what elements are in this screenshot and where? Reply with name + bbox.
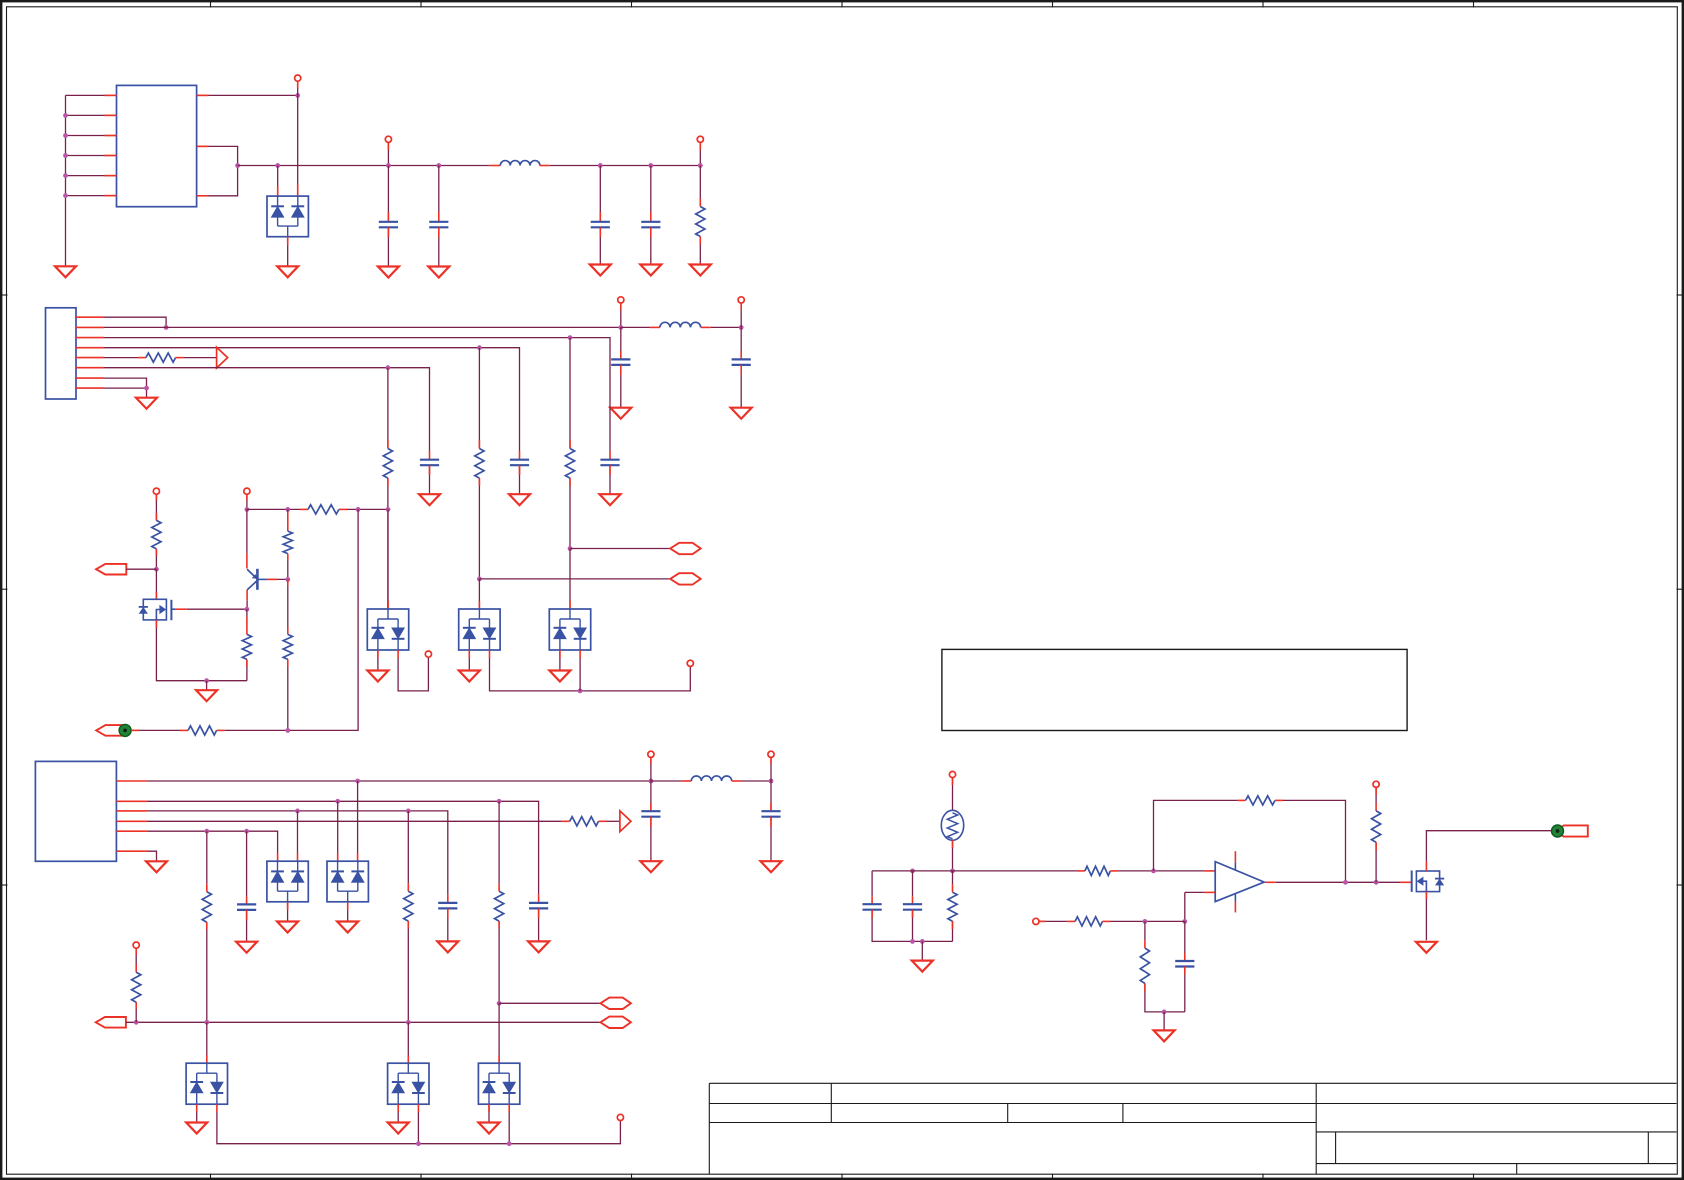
row4 wire to R [104,357,146,359]
ground D6 [277,922,298,933]
junction R10 hex [497,1001,502,1006]
junction rail cap x650.8 [648,163,653,168]
ground cap x388.4 [378,267,399,278]
wire gnd stub analog [921,941,923,960]
wire D10 right out [508,1104,510,1144]
left pin bus wire [65,95,67,266]
wire cap row5 gnd [429,465,431,494]
wire to B1 top [387,509,389,609]
wire T2 down [246,494,248,509]
ground D9 [388,1123,409,1134]
J2 pin 8 wire [104,387,147,389]
note box [942,649,1407,730]
ground row2J3 [528,941,549,952]
resistor R13 [948,892,957,921]
ground row3J3 [437,941,458,952]
capacitor row1 x741.2 [732,359,751,365]
inductor L2 [660,322,701,327]
junction P3 term [134,1020,139,1025]
junction rail left [235,163,240,168]
wire C12 bottom [1184,967,1186,1012]
junction rail resistor [698,163,703,168]
junction plus node [1182,919,1187,924]
wire gnd stub [206,681,208,691]
wire cap to ground x650.8 [650,227,652,264]
wire row5 to R8 [206,831,208,892]
port offpage d [600,1017,631,1028]
ground cap x438.8 [428,267,449,278]
dual diode D6 [267,861,308,902]
resistor R16 [1140,948,1149,983]
junction P3 C1 [204,1020,209,1025]
wire D6 gnd [287,902,289,921]
wire cap to ground x600.3 [599,227,601,264]
wire C11 bottom [912,910,914,942]
terminal D3 out [687,660,693,666]
wire node to R4 [246,609,248,634]
row4J3 wire to port [599,820,620,822]
junction row5 cap [244,829,249,834]
wire D2 left gnd [377,650,379,671]
wire row2 to R down [569,338,571,449]
wire row3 to R down [478,348,480,449]
ground analog in [912,961,933,972]
ground D2 [367,671,388,682]
resistor R9 [404,891,413,921]
J2 pin 7 stub [76,377,104,379]
terminal above rail x700.3 [697,136,703,142]
wire cap to ground x438.8 [438,227,440,266]
J3 row2 wire [147,801,539,903]
resistor row4J3 [570,817,599,826]
wire lower gnd stub [1163,1012,1165,1031]
wire cap to ground x388.4 [387,227,389,266]
dual diode D10 [478,1063,519,1104]
wire P3 row [126,1021,600,1023]
terminal T1 [153,488,159,494]
port out row4J3 [620,811,631,832]
ground row1J3 x650.9 [640,861,661,872]
terminal row1 b [738,297,744,303]
wire opamp plus [1185,891,1215,893]
junction row2 [568,335,573,340]
junction row1 b [739,325,744,330]
power rail wire right [540,165,700,167]
wire R13 top [952,871,954,892]
junction rail cap x438.8 [436,163,441,168]
connector J3 [35,761,116,861]
junction bus pin 6 [63,193,68,198]
junction gnd rail [204,678,209,683]
capacitor row3 [510,460,529,466]
ground D8 [186,1123,207,1134]
wire rail to cap C x388.4 [387,166,389,222]
junction sensor node [950,869,955,874]
junction port row a [568,546,573,551]
junction T2 row [245,507,250,512]
dual diode D8 [186,1063,227,1104]
resistor row4 [146,353,176,362]
J3 pin 6 stub [116,850,146,852]
junction R16 top [1143,919,1148,924]
wire row3 to D6 right [297,811,299,861]
port offpage a [670,543,701,554]
row3 wire [104,348,520,460]
wire D3 left gnd [468,650,470,671]
ground J3 pin6 [146,861,167,872]
U1 left pin 4 wire [66,155,117,157]
wire row1 cap x650.9 [650,781,652,811]
wire term to R11 [135,948,137,972]
terminal row1 a stub [620,303,622,327]
terminal sensor [949,771,955,777]
ground cap row5 [419,494,440,505]
title block [709,1083,1676,1174]
terminal ref [1033,918,1039,924]
capacitor row3J3 [438,903,457,909]
wire term to RT1 [952,778,954,811]
U1 left pin 1 wire [66,94,117,96]
port in P3 [96,1017,126,1028]
capacitor C x388.4 [379,222,398,228]
resistor R4 [242,634,251,659]
ground Q3 [1416,942,1437,953]
wire terminal stub x700.3 [699,142,701,165]
capacitor row1J3 x650.9 [641,811,660,817]
MOSFET Q1 [139,599,176,620]
wire R16 bottom [1145,983,1185,1012]
wire P2 to R7 [131,729,188,731]
ground lower [1154,1030,1175,1041]
wire rail to cap C x438.8 [438,166,440,222]
J3 pin 4 stub [116,820,146,822]
wire base node to R6 [287,579,289,634]
wire to hex port b [479,578,670,580]
wire row1 cap x771 [770,781,772,811]
wire Q2 base [267,578,288,580]
terminal D-row out [617,1114,623,1120]
analog main wire b [1110,870,1215,872]
port offpage c [600,998,631,1009]
wire D10 left gnd [488,1104,490,1122]
wire row2 to R10 [498,801,500,891]
U1 right pins 2-3 loop wire [197,146,238,195]
J2 pin 6 stub [76,367,104,369]
wire to A1 top [478,579,480,609]
wire pullup to R17 [1375,787,1377,811]
terminal row wire b [339,508,388,510]
dual diode D7 [327,861,368,902]
junction P3 C2 [406,1020,411,1025]
dual diode D9 [388,1063,429,1104]
dual diode D1 [267,196,308,237]
junction D9 rail [416,1141,421,1146]
capacitor row2 [600,460,619,466]
wire D2 right out [398,650,428,691]
wire R17 down [1375,842,1377,882]
resistor R12 [1085,866,1111,875]
wire hex row c [499,1002,600,1004]
ground bus [55,266,76,277]
U1 left pin 2 wire [66,114,117,116]
wire R16 top [1144,921,1146,948]
capacitor C11 [903,904,922,910]
transistor Q2 [247,569,267,590]
inductor L3 [691,776,731,781]
terminal above rail x388.4 [385,136,391,142]
wire D1 to ground [287,237,289,267]
row1 wire to L2 [621,326,660,328]
terminal pullup [1373,781,1379,787]
junction feedback [1151,869,1156,874]
terminal VCC1 [295,75,301,81]
wire C12 top [1184,921,1186,961]
wire R10 down [498,921,500,1003]
junction bottom rail b [920,939,925,944]
junction lower gnd [1162,1010,1167,1015]
wire to hex port a [570,548,670,550]
resistor R3 [308,505,339,514]
J2 pins 7-8 wire [104,378,147,388]
J3 pin 5 stub [116,830,146,832]
junction pins 7-8 [144,386,149,391]
wire R7 to corner [217,509,359,730]
ground D3 [459,671,480,682]
resistor R14 [1246,796,1275,805]
U1 left pin 3 wire [66,135,117,137]
wire D8 left gnd [196,1104,198,1122]
wire ref to R15 [1039,920,1075,922]
resistor R1 [696,207,705,237]
wire cap row2 gnd [609,465,611,494]
wire cap gnd row1J3 x650.9 [650,817,652,862]
wire Q1 gate [176,608,247,610]
junction row5 R down [204,829,209,834]
junction row1 c [649,779,654,784]
terminal row1 a [618,297,624,303]
ground D7 [337,922,358,933]
wire rail to cap C x600.3 [599,166,601,222]
wire D7 gnd [347,902,349,921]
port in P2 green [96,724,131,736]
terminal row1 b stub [740,303,742,327]
ground row1 x741.2 [731,408,752,419]
J2 pin1 wire [104,317,166,327]
ground cap x600.3 [590,265,611,276]
resistor R2 [152,520,161,549]
op-amp U2 [1215,851,1264,912]
capacitor C x600.3 [591,222,610,228]
wire Q1 source rail [156,620,247,681]
junction out R17 [1374,880,1379,885]
capacitor row1 x620.8 [611,359,630,365]
ground J2 [136,398,157,409]
power rail wire left [238,165,501,167]
wire row1 to cap x620.8 [620,327,622,359]
wire P1 to node [126,568,156,570]
junction port node [154,567,159,572]
wire rail to cap C x650.8 [650,166,652,222]
resistor R6 [283,634,292,659]
resistor net row3 [475,449,484,479]
J3 row5 wire [147,831,278,861]
wire row2 to D7 left [337,801,339,861]
capacitor C10 [863,904,882,910]
ground D10 [479,1123,500,1134]
wire row1 to cap x741.2 [740,327,742,359]
wire rail to D1 left [277,166,279,197]
wire Q3 drain [1426,831,1551,871]
port out green [1552,825,1588,837]
junction row mid [356,507,361,512]
wire opamp out [1265,881,1412,883]
wire cap to gnd row1 x620.8 [620,365,622,408]
resistor R8 [202,892,211,923]
wire cap row3J3 gnd [447,908,449,941]
row1 wire after L3 [732,780,771,782]
J3 pin 2 stub [116,800,146,802]
wire R row5 down to box [387,478,389,609]
ground row1J3 x771 [761,861,782,872]
terminal row1 d [768,751,774,757]
wire cap C10 [871,871,873,904]
terminal row1 d stub [770,757,772,781]
junction row1 D6 right [355,779,360,784]
row1 wire to L3 [651,780,691,782]
wire row to R5 [287,509,289,531]
port out row4 [217,347,228,368]
wire to A2 top [569,549,571,610]
junction row right [386,507,391,512]
J2 pin 5 stub [76,357,104,359]
junction bus pin 5 [63,173,68,178]
ground R1 [690,265,711,276]
ground cap row3 [509,494,530,505]
wire R1 to ground [699,237,701,265]
wire plus down [1184,892,1186,921]
wire C2 top [407,1022,409,1063]
J2 pin 2 stub [76,326,104,328]
wire R13 bottom [952,921,954,941]
capacitor row5J3 [237,904,256,910]
ground Q1 source [196,690,217,701]
wire Q2 collector [246,590,248,609]
junction bus pin 4 [63,153,68,158]
junction port row b [477,577,482,582]
junction D4 out [578,689,583,694]
J3 pin 1 stub [116,780,146,782]
dual diode D3 [459,609,500,650]
wire D8 right out [217,1104,621,1144]
feedback wire [1154,800,1246,871]
ground D4 [549,671,570,682]
junction base node [285,577,290,582]
junction bus pin 3 [63,133,68,138]
wire R8 down [206,922,208,1022]
junction row3 R down [406,809,411,814]
J3 row4 wire [147,820,570,822]
wire terminal to D1 right [297,81,299,95]
wire T1 to R2 [155,494,157,520]
wire C3 top [498,1003,500,1063]
J3 pin 3 stub [116,810,146,812]
wire cap row3 gnd [519,465,521,494]
ground D1 [277,266,298,277]
capacitor row2J3 [529,903,548,909]
terminal mid [133,942,139,948]
junction R7 row [285,728,290,733]
dual diode D4 [549,609,590,650]
junction row5 [386,365,391,370]
wire R9 down [407,921,409,1022]
wire R row3 down [478,478,480,579]
row5 wire [104,368,430,460]
resistor R10 [495,891,504,921]
wire cap to gnd row1 x741.2 [740,365,742,408]
feedback wire b [1275,800,1346,882]
junction row3 D6b [295,809,300,814]
junction row1 a [618,325,623,330]
resistor R11 [132,972,141,1002]
capacitor C x438.8 [429,222,448,228]
wire node to Q1 drain [155,569,157,599]
thermistor RT1 [941,810,963,840]
J3 pin6 wire [147,851,157,861]
junction D10 rail [507,1141,512,1146]
junction Q2 collector gate [245,607,250,612]
row2 wire [104,338,610,460]
terminal D2 out [425,651,431,657]
U1 left pin 5 wire [66,175,117,177]
terminal row wire a [247,508,308,510]
ground row5J3 [236,942,257,953]
wire R4 to rail [246,659,248,680]
wire R11 down [135,1002,137,1022]
wire cap C11 [912,871,914,904]
connector J2 [46,308,77,399]
wire D9 right out [417,1104,419,1144]
wire R6 down [287,659,289,730]
wire D4 left gnd [559,650,561,671]
wire RT1 down [952,840,954,871]
row1 wire [104,326,621,328]
J3 row3 wire [147,811,448,903]
wire C10 bottom [872,910,952,942]
junction cap2 node [910,869,915,874]
junction out fb [1343,880,1348,885]
row1 wire after L2 [701,326,742,328]
J2 pin 3 stub [76,337,104,339]
junction bus pin 2 [63,113,68,118]
terminal T2 [244,488,250,494]
port in P1 [96,564,126,575]
terminal row1 c [648,751,654,757]
wire cap gnd row1J3 x771 [770,817,772,862]
junction row2 R down [497,799,502,804]
wire cap row5J3 gnd [246,910,248,942]
analog main wire [872,870,1085,872]
wire row5 to cap [246,831,248,904]
port offpage b [670,573,701,584]
wire D4 right out [579,650,581,691]
inductor L1 [500,161,540,166]
junction D1 left [275,163,280,168]
resistor net row5 [383,449,392,479]
ground cap x650.8 [640,265,661,276]
ground cap row2 [600,494,621,505]
wire row3 to R9 [407,811,409,891]
wire rail to R1 [699,166,701,207]
